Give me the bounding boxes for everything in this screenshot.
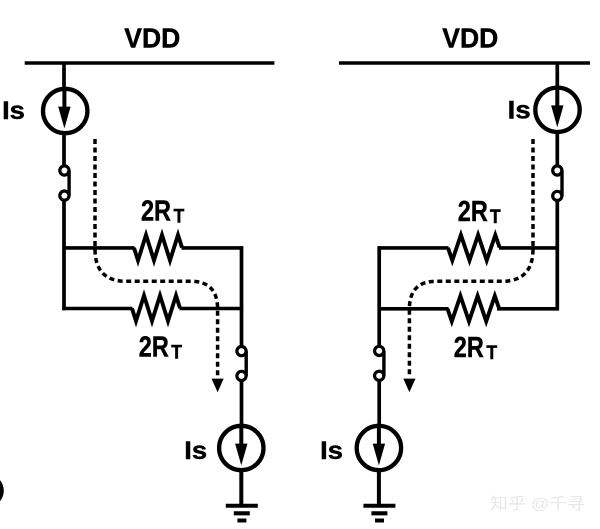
svg-text:T: T (171, 343, 182, 364)
resistor 2RT (right bottom) (448, 296, 500, 321)
VDD rail (right) (339, 61, 590, 65)
current source Is (bottom left) (219, 426, 263, 470)
value label 2RT (left top) (141, 195, 185, 227)
wire: VDD rail to current source Is (left) (62, 63, 66, 90)
wire: top branch left lead (left half) (62, 246, 134, 250)
wire: switch to bottom current source (right half) (377, 380, 381, 427)
value label 2RT (left bottom) (139, 331, 183, 363)
svg-text:VDD: VDD (124, 23, 180, 54)
svg-text:知乎 @千寻: 知乎 @千寻 (490, 495, 585, 513)
svg-text:Is: Is (320, 437, 343, 465)
ground (right half) (363, 506, 395, 521)
wire: bottom branch right lead (right half) (497, 307, 559, 311)
current source Is (top left) (43, 89, 87, 133)
ground (left half) (226, 506, 258, 521)
svg-text:2R: 2R (454, 332, 484, 364)
svg-text:VDD: VDD (442, 23, 498, 54)
wire: bottom branch right lead (left half) (180, 307, 244, 311)
wire: current source to switch (right) (555, 132, 559, 167)
wire: switch down to resistor branch node (left) (62, 200, 66, 310)
wire: right vertical from top branch down to switch (left half) (240, 246, 244, 347)
wire: current source to switch (left) (62, 133, 66, 167)
value label 2RT (right top) (458, 196, 501, 228)
VDD rail (left) (25, 61, 275, 65)
wire: switch down to resistor branch node (right) (555, 200, 559, 310)
svg-text:Is: Is (2, 97, 25, 125)
svg-text:Is: Is (184, 437, 207, 465)
value label 2RT (right bottom) (454, 332, 498, 364)
switch (top right, closed) (553, 166, 562, 201)
wire: top branch right lead (right half) (499, 246, 559, 250)
wire: left vertical from top branch down to switch (right half) (377, 246, 381, 346)
current source Is (top right) (535, 88, 579, 132)
svg-text:T: T (490, 207, 501, 228)
switch (bottom right, closed) (375, 346, 384, 380)
decorative clipped bullet circle (bottom left edge) (0, 474, 4, 507)
svg-text:T: T (174, 207, 185, 228)
wire: top branch left lead (right half) (378, 246, 449, 250)
wire: bottom current source to ground (right half) (377, 470, 381, 506)
switch (top left, closed) (60, 166, 69, 200)
resistor 2RT (left bottom) (132, 296, 180, 321)
svg-text:Is: Is (508, 97, 531, 125)
resistor 2RT (left top) (134, 235, 182, 260)
wire: VDD rail to current source Is (right) (555, 63, 559, 89)
switch (bottom left, closed) (237, 347, 246, 381)
dashed current path arrow (left half) (95, 139, 224, 392)
resistor 2RT (right top) (448, 235, 500, 260)
wire: top branch right lead (left half) (182, 246, 244, 250)
svg-text:T: T (486, 343, 497, 364)
wire: bottom branch left lead (left half) (62, 307, 132, 311)
svg-text:2R: 2R (141, 195, 171, 227)
wire: bottom current source to ground (left half) (239, 470, 243, 506)
current source Is (bottom right) (357, 426, 401, 470)
wire: bottom branch left lead (right half) (378, 307, 449, 311)
svg-text:2R: 2R (139, 331, 169, 363)
svg-text:2R: 2R (458, 196, 488, 228)
wire: switch to bottom current source (left half) (240, 380, 244, 427)
dashed current path arrow (right half) (403, 139, 533, 392)
